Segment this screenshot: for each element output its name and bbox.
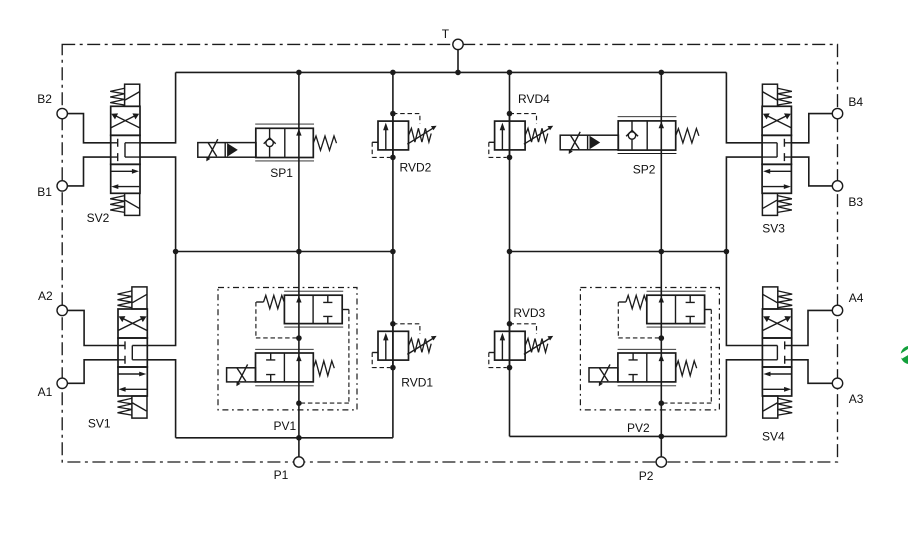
svg-text:A4: A4 bbox=[849, 291, 864, 305]
bottom bus wire left bbox=[176, 437, 393, 439]
svg-text:RVD1: RVD1 bbox=[401, 375, 433, 389]
junction dots bottom bus bbox=[296, 434, 664, 441]
wire SV4 lower left port to bottom bus bbox=[726, 360, 762, 437]
wire top bus to SV3 upper left port bbox=[726, 72, 762, 142]
wire SV1 lower right port to bottom bus bbox=[147, 360, 176, 438]
wire port B3 to SV3 bbox=[791, 157, 832, 186]
wire port A1 to SV1 bbox=[67, 360, 118, 384]
directional valve SV4 bbox=[762, 287, 792, 418]
svg-text:P1: P1 bbox=[274, 468, 289, 482]
proportional valve SP1 bbox=[198, 124, 337, 161]
port A4 bbox=[832, 305, 842, 315]
wire top bus to SV2 upper right port bbox=[140, 72, 176, 142]
svg-text:P2: P2 bbox=[639, 469, 654, 483]
compensator assembly PV1 bbox=[218, 288, 357, 410]
relief valve RVD4 bbox=[489, 111, 553, 160]
top bus wire bbox=[176, 71, 727, 73]
svg-text:SV3: SV3 bbox=[762, 222, 785, 236]
svg-text:PV2: PV2 bbox=[627, 421, 650, 435]
svg-text:RVD3: RVD3 bbox=[513, 306, 545, 320]
svg-text:T: T bbox=[442, 27, 450, 41]
wire port A2 to SV1 bbox=[67, 310, 118, 345]
port B4 bbox=[832, 108, 842, 118]
port A3 bbox=[832, 378, 842, 388]
manifold boundary (dash-dot enclosure) bbox=[62, 44, 837, 462]
svg-text:A1: A1 bbox=[38, 385, 53, 399]
mid bus wire left bbox=[176, 251, 393, 253]
svg-text:SV4: SV4 bbox=[762, 430, 785, 444]
green logo fragment at right edge bbox=[899, 346, 908, 364]
svg-text:SV1: SV1 bbox=[88, 416, 111, 430]
port T bbox=[453, 39, 463, 49]
svg-text:RVD2: RVD2 bbox=[400, 160, 432, 174]
svg-text:SV2: SV2 bbox=[87, 211, 110, 225]
wire port A4 to SV4 bbox=[792, 310, 833, 345]
proportional valve SP2 bbox=[560, 117, 699, 154]
svg-text:B3: B3 bbox=[848, 195, 863, 209]
wire column SP1/PV1 to P1 bbox=[298, 72, 300, 456]
wire port B4 to SV3 bbox=[791, 114, 832, 143]
port B3 bbox=[832, 181, 842, 191]
wire column SP2/PV2 to P2 bbox=[660, 72, 662, 456]
relief valve RVD2 bbox=[372, 111, 436, 160]
svg-text:RVD4: RVD4 bbox=[518, 92, 550, 106]
port A1 bbox=[57, 378, 67, 388]
wire port B2 to SV2 bbox=[67, 114, 110, 143]
relief valve RVD3 bbox=[489, 321, 553, 370]
svg-text:A3: A3 bbox=[849, 392, 864, 406]
wire T drop bbox=[457, 50, 459, 73]
svg-text:PV1: PV1 bbox=[274, 419, 297, 433]
svg-text:B2: B2 bbox=[37, 92, 52, 106]
wire SV2 lower right port to SV1 upper right port bbox=[140, 157, 176, 345]
directional valve SV3 bbox=[762, 84, 792, 215]
mid bus wire right bbox=[510, 251, 727, 253]
directional valve SV1 bbox=[118, 287, 148, 418]
wire SV3 lower left port to SV4 upper left port bbox=[726, 157, 762, 345]
port A2 bbox=[57, 305, 67, 315]
junction dots mid bus bbox=[173, 249, 729, 255]
svg-text:B4: B4 bbox=[848, 95, 863, 109]
port P2 bbox=[656, 457, 666, 467]
svg-text:B1: B1 bbox=[37, 185, 52, 199]
port P1 bbox=[294, 457, 304, 467]
port B1 bbox=[57, 181, 67, 191]
directional valve SV2 bbox=[110, 84, 140, 215]
svg-text:SP2: SP2 bbox=[633, 163, 656, 177]
compensator assembly PV2 bbox=[580, 288, 719, 410]
wire port A3 to SV4 bbox=[792, 360, 833, 384]
bottom bus wire right bbox=[510, 435, 727, 437]
svg-text:A2: A2 bbox=[38, 289, 53, 303]
wire port B1 to SV2 bbox=[67, 157, 110, 186]
junction dots top bus bbox=[296, 70, 664, 76]
port B2 bbox=[57, 108, 67, 118]
relief valve RVD1 bbox=[372, 321, 436, 370]
wire column RVD4/RVD3 bbox=[509, 72, 511, 436]
svg-text:SP1: SP1 bbox=[270, 166, 293, 180]
wire column RVD2/RVD1 bbox=[392, 72, 394, 437]
